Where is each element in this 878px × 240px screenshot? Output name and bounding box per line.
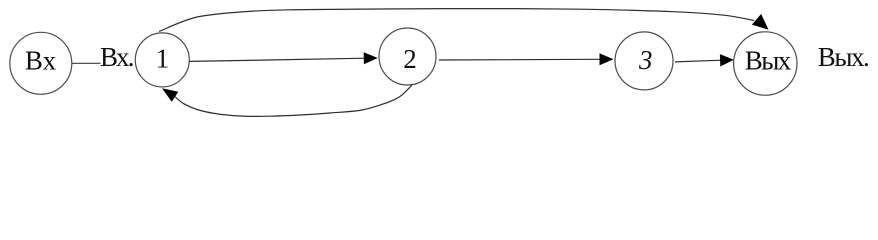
wire curved arrow 2 to 1 (bottom feedback) bbox=[175, 85, 412, 116]
wire from Вх circle to label Вх. bbox=[72, 62, 101, 64]
svg-text:Вх.: Вх. bbox=[100, 42, 135, 72]
node 3 bbox=[615, 32, 673, 90]
svg-text:Вх: Вх bbox=[25, 46, 57, 76]
node 1 bbox=[135, 33, 189, 87]
svg-text:Вых: Вых bbox=[745, 46, 792, 76]
wire curved arrow 1 to Вых (top feed-forward) bbox=[159, 9, 754, 32]
svg-text:Вых.: Вых. bbox=[818, 42, 870, 72]
svg-text:3: 3 bbox=[638, 45, 653, 75]
wire arrow 2 to 3 bbox=[439, 58, 601, 61]
node Вх (input circle) bbox=[10, 32, 72, 94]
wire arrow 3 to Вых bbox=[675, 60, 722, 62]
svg-text:2: 2 bbox=[403, 44, 417, 74]
node 2 bbox=[379, 28, 436, 85]
svg-text:1: 1 bbox=[156, 43, 170, 73]
node Вых (output circle) bbox=[734, 32, 797, 95]
wire arrow 1 to 2 bbox=[190, 58, 366, 61]
